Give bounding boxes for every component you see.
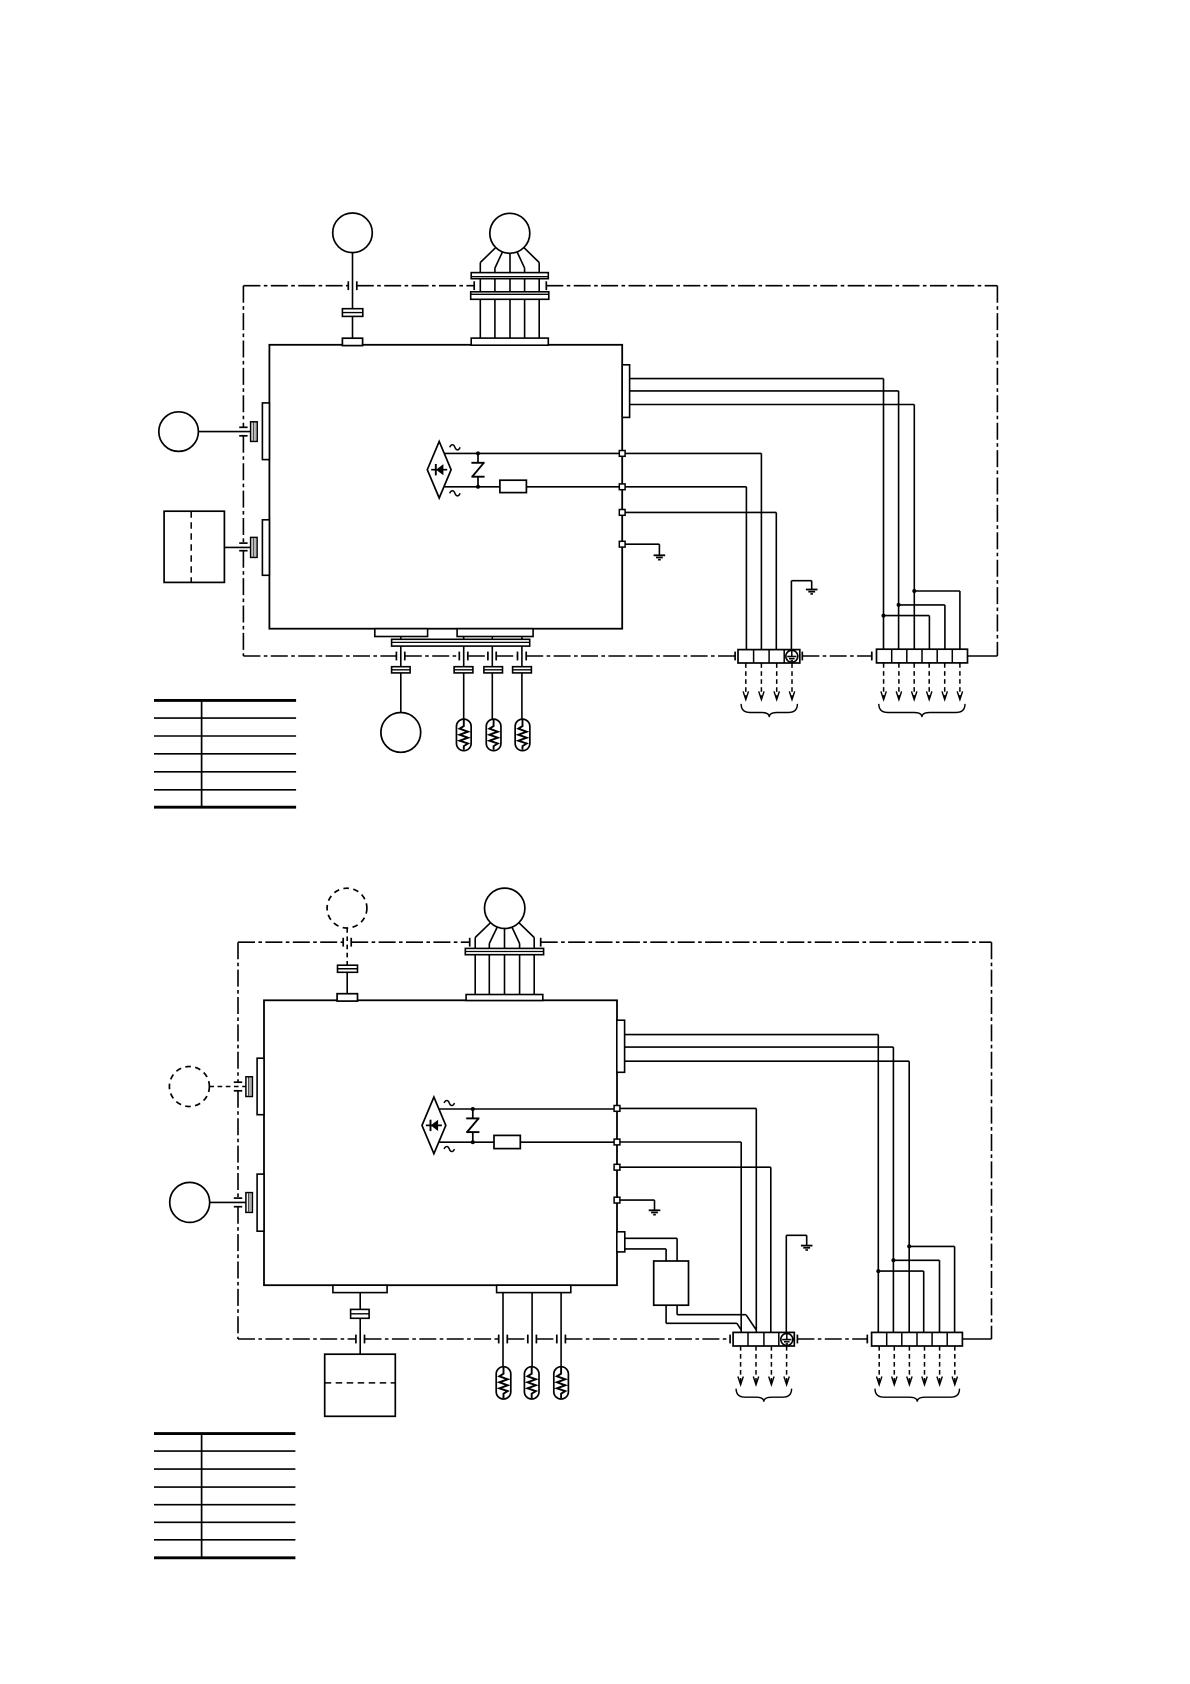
relay box RL (bottom diagram) bbox=[654, 1261, 689, 1305]
wire to thermistor TH1 (top diagram) bbox=[463, 673, 465, 719]
indoor/outdoor terminal block TB1 (top diagram) bbox=[738, 650, 800, 663]
PCB edge node square 2 (top diagram) bbox=[619, 484, 625, 490]
PCB edge connector P2 (top diagram) bbox=[262, 520, 269, 576]
outdoor unit enclosure border (top diagram, dash-dot) bbox=[243, 286, 997, 656]
connector J2 (top diagram) bbox=[251, 537, 258, 557]
fan motor base on PCB (bottom diagram) bbox=[466, 995, 543, 1001]
inline connector K2 (top diagram) bbox=[454, 667, 473, 673]
capacitor CF (top diagram) bbox=[342, 309, 362, 317]
wire from motor MF to PCB top (top diagram) bbox=[352, 253, 354, 339]
indoor/outdoor terminal block TB3 (bottom diagram) bbox=[733, 1332, 794, 1346]
controller PCB box (top diagram) bbox=[269, 345, 622, 629]
thermistor TH2 (bottom diagram) bbox=[524, 1367, 539, 1399]
PCB bottom connector CN-C (bottom diagram) bbox=[333, 1285, 387, 1292]
fan motor terminal bar 2 (top diagram) bbox=[471, 292, 549, 300]
thermistor TH1 (top diagram) bbox=[456, 719, 471, 751]
legend table (bottom diagram) bbox=[154, 1434, 295, 1558]
terminal block TB2 (top diagram) bbox=[877, 649, 968, 663]
junction dot top (bottom diagram) bbox=[471, 1107, 475, 1111]
optional motor dashed circle (bottom diagram) bbox=[169, 1067, 209, 1107]
wire P4-2 to relay (bottom diagram) bbox=[625, 1249, 666, 1261]
wire diode bridge AC top (top diagram) bbox=[445, 452, 620, 454]
thermistor TH3 (top diagram) bbox=[515, 719, 530, 751]
PCB edge connector P3 (top diagram) bbox=[622, 365, 629, 418]
fuse F (top diagram) bbox=[500, 480, 527, 492]
wire node1 to terminal block (top diagram) bbox=[625, 453, 761, 649]
thermistor TH2 (top diagram) bbox=[486, 719, 501, 751]
PCB edge node square 1 (top diagram) bbox=[619, 451, 625, 457]
terminal TB1 outgoing arrows (top diagram) bbox=[743, 663, 795, 699]
thermistor TH3 (bottom diagram) bbox=[554, 1367, 569, 1399]
terminal block TB4 (bottom diagram) bbox=[872, 1332, 963, 1346]
fuse F (bottom diagram) bbox=[494, 1135, 520, 1148]
varistor Z (top diagram) bbox=[471, 453, 484, 486]
varistor Z (bottom diagram) bbox=[466, 1109, 479, 1142]
earth wire from terminal block (bottom diagram) bbox=[786, 1235, 806, 1332]
fan motor base on PCB (top diagram) bbox=[471, 338, 548, 345]
wire diode bridge AC bottom (top diagram) bbox=[445, 486, 620, 488]
branch wire to terminal 6 (top diagram) bbox=[912, 589, 960, 649]
dashed wire fan motor option (bottom diagram) bbox=[346, 928, 348, 994]
fan motor lead wires (bottom diagram) bbox=[475, 923, 534, 995]
wire node2 to terminal block (bottom diagram) bbox=[620, 1142, 741, 1332]
PCB bottom connector CN-A (top diagram) bbox=[375, 629, 428, 637]
inline connector K1 (top diagram) bbox=[392, 667, 411, 673]
connector J2 (bottom diagram) bbox=[246, 1193, 253, 1213]
branch wire to terminal 5 (bottom diagram) bbox=[891, 1258, 939, 1332]
PCB edge node square 4 (bottom diagram) bbox=[614, 1197, 620, 1203]
branch wire to terminal 5 (top diagram) bbox=[897, 603, 945, 650]
wire P3-2 to terminal (bottom diagram) bbox=[625, 1047, 894, 1333]
fan motor M3 circle (top diagram) bbox=[381, 713, 421, 753]
tilde AC mark bottom (top diagram) bbox=[450, 491, 460, 496]
PCB edge node square 1 (bottom diagram) bbox=[614, 1106, 620, 1112]
brace under TB1 (top diagram) bbox=[741, 704, 797, 717]
optional motor MF dashed circle (bottom diagram) bbox=[327, 888, 367, 928]
wire diode bridge AC bottom (bottom diagram) bbox=[440, 1141, 615, 1143]
wire P4-1 to relay (bottom diagram) bbox=[625, 1238, 677, 1261]
wire node3 to terminal block (top diagram) bbox=[625, 512, 776, 649]
wire node4 to ground (bottom diagram) bbox=[620, 1200, 655, 1210]
compressor box MC (bottom diagram) bbox=[325, 1354, 396, 1416]
component box B1 (top diagram) bbox=[164, 511, 224, 582]
tilde AC mark top (top diagram) bbox=[450, 445, 460, 450]
relay output wire 2 (bottom diagram) bbox=[666, 1305, 741, 1330]
wire diode bridge AC top (bottom diagram) bbox=[440, 1108, 615, 1110]
tilde AC mark bottom (bottom diagram) bbox=[444, 1146, 454, 1151]
connector J1 (bottom diagram) bbox=[246, 1077, 253, 1097]
wiring bus bar (top diagram) bbox=[392, 639, 530, 646]
thermistor TH1 (bottom diagram) bbox=[496, 1367, 511, 1399]
junction dot top (top diagram) bbox=[476, 451, 480, 455]
fan motor circle (top diagram) bbox=[490, 213, 530, 253]
PCB edge node square 3 (top diagram) bbox=[619, 510, 625, 516]
PCB edge node square 3 (bottom diagram) bbox=[614, 1164, 620, 1170]
earth ground symbol (top diagram) bbox=[806, 590, 818, 594]
border crossing ticks (bottom diagram) bbox=[234, 938, 868, 1344]
motor M3 circle (bottom diagram) bbox=[170, 1182, 210, 1222]
PCB edge connector P2 (bottom diagram) bbox=[257, 1174, 264, 1231]
earth ground symbol (bottom diagram) bbox=[801, 1246, 813, 1250]
ground at node4 (bottom diagram) bbox=[649, 1210, 661, 1214]
wire to thermistor TH1 (bottom diagram) bbox=[502, 1293, 504, 1367]
wire P3-2 to terminal (top diagram) bbox=[630, 391, 899, 650]
inline connector K3 (top diagram) bbox=[484, 667, 503, 673]
wire to fan motor M3 (top diagram) bbox=[400, 673, 402, 713]
branch wire to terminal 6 (bottom diagram) bbox=[907, 1244, 954, 1332]
terminal TB4 outgoing arrows (bottom diagram) bbox=[877, 1346, 958, 1385]
stub wires to bus (top diagram) bbox=[401, 637, 522, 640]
wire P3-3 to terminal (bottom diagram) bbox=[625, 1061, 910, 1332]
wire bus to cap row (top diagram) bbox=[401, 646, 522, 667]
capacitor CF (bottom diagram) bbox=[338, 965, 358, 972]
connector CN-F on PCB top edge (top diagram) bbox=[342, 338, 362, 345]
connector CN-F on PCB top edge (bottom diagram) bbox=[337, 994, 357, 1001]
fan motor terminal bar 1 (top diagram) bbox=[471, 273, 548, 279]
branch wire to terminal 4 (top diagram) bbox=[882, 614, 930, 650]
brace under TB3 (bottom diagram) bbox=[736, 1389, 792, 1402]
outdoor unit enclosure border (bottom diagram, dash-dot) bbox=[238, 942, 992, 1339]
wire P3-3 to terminal (top diagram) bbox=[630, 405, 915, 650]
wire node1 to terminal block (bottom diagram) bbox=[620, 1108, 756, 1332]
diode bridge DB (top diagram) bbox=[427, 441, 451, 498]
PCB edge connector P4 (bottom diagram) bbox=[617, 1232, 625, 1252]
branch wire to terminal 4 (bottom diagram) bbox=[876, 1269, 923, 1333]
legend table (top diagram) bbox=[154, 700, 296, 807]
relay output wire 1 (bottom diagram) bbox=[677, 1305, 756, 1330]
terminal TB2 outgoing arrows (top diagram) bbox=[881, 663, 963, 700]
dashed wire M2 option (bottom diagram) bbox=[209, 1086, 246, 1088]
fan motor lead wires (top diagram) bbox=[480, 248, 539, 339]
PCB edge node square 4 (top diagram) bbox=[619, 541, 625, 547]
tilde AC mark top (bottom diagram) bbox=[444, 1100, 454, 1105]
fan motor circle (bottom diagram) bbox=[485, 888, 525, 928]
motor MF circle (top diagram) bbox=[333, 213, 373, 253]
inline connector K4 (top diagram) bbox=[513, 667, 532, 673]
diode bridge DB (bottom diagram) bbox=[422, 1097, 446, 1154]
border crossing ticks (top diagram) bbox=[239, 281, 872, 660]
wire to thermistor TH2 (bottom diagram) bbox=[531, 1293, 533, 1367]
PCB edge connector P1 (top diagram) bbox=[262, 403, 269, 460]
controller PCB box (bottom diagram) bbox=[264, 1000, 617, 1285]
wire to thermistor TH3 (bottom diagram) bbox=[560, 1293, 562, 1367]
wire node2 to terminal block (top diagram) bbox=[625, 487, 746, 650]
PCB edge connector P3 (bottom diagram) bbox=[617, 1020, 625, 1072]
PCB edge connector P1 (bottom diagram) bbox=[257, 1058, 264, 1115]
motor M2 circle (top diagram) bbox=[159, 412, 199, 452]
wire to thermistor TH2 (top diagram) bbox=[491, 673, 493, 719]
wire node3 to terminal block (bottom diagram) bbox=[620, 1167, 771, 1332]
wire B1 to connector (top diagram) bbox=[224, 546, 250, 548]
wire P3-1 to terminal (bottom diagram) bbox=[625, 1035, 879, 1333]
terminal TB3 outgoing arrows (bottom diagram) bbox=[738, 1346, 789, 1385]
PCB edge node square 2 (bottom diagram) bbox=[614, 1139, 620, 1145]
wire node4 to ground (top diagram) bbox=[625, 544, 659, 555]
PCB bottom connector CN-B (top diagram) bbox=[457, 629, 533, 637]
wire to thermistor TH3 (top diagram) bbox=[521, 673, 523, 719]
wire P3-1 to terminal L (top diagram) bbox=[630, 379, 884, 650]
wire motor M2 to connector (top diagram) bbox=[198, 431, 250, 433]
wire motor M3 to connector (bottom diagram) bbox=[210, 1201, 246, 1203]
PCB bottom connector CN-D (bottom diagram) bbox=[497, 1285, 571, 1292]
brace under TB2 (top diagram) bbox=[879, 704, 965, 717]
junction dot bottom (bottom diagram) bbox=[471, 1140, 475, 1144]
fan motor terminal bar (bottom diagram) bbox=[465, 948, 543, 954]
junction dot bottom (top diagram) bbox=[476, 485, 480, 489]
ground at node4 (top diagram) bbox=[654, 555, 666, 559]
wire to compressor (bottom diagram) bbox=[359, 1293, 361, 1355]
capacitor CC (bottom diagram) bbox=[351, 1309, 370, 1318]
earth wire from terminal block (top diagram) bbox=[791, 581, 811, 650]
connector J1 (top diagram) bbox=[251, 422, 258, 442]
brace under TB4 (bottom diagram) bbox=[875, 1389, 960, 1402]
